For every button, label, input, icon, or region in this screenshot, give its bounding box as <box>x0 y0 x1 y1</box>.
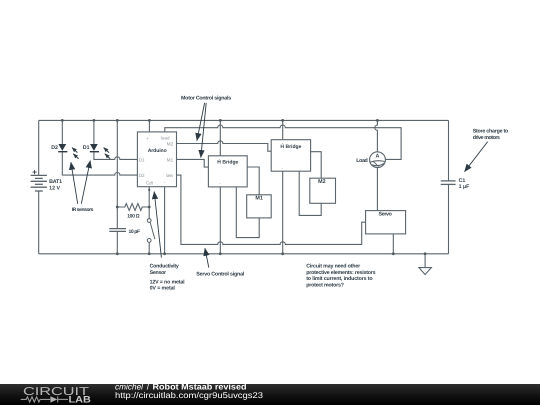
svg-text:M1: M1 <box>167 158 174 163</box>
wire H bridge 2 to M2 top <box>311 152 322 179</box>
wire load meter to servo <box>376 168 378 211</box>
svg-text:H́ Bridge: H́ Bridge <box>217 159 238 166</box>
svg-text:Cdt: Cdt <box>146 180 154 185</box>
svg-text:10 pF: 10 pF <box>129 229 141 235</box>
label C1 value <box>459 178 470 190</box>
svg-text:load: load <box>161 135 170 140</box>
svg-text:Conductivity: Conductivity <box>150 264 179 270</box>
wire Arduino Cdt pin to switch <box>148 187 150 219</box>
wire H bridge 1 top pin <box>219 120 221 155</box>
svg-text:M2: M2 <box>318 179 326 185</box>
pin labels Arduino <box>139 135 174 185</box>
photodiode D2 <box>58 144 78 159</box>
svg-text:A: A <box>376 154 380 160</box>
wire H bridge 2 top pin <box>282 120 284 139</box>
wire D1 cathode to Arduino D1 pin <box>94 152 137 159</box>
svg-text:H́ Bridge: H́ Bridge <box>280 143 301 150</box>
ammeter Load <box>370 152 386 168</box>
annotation Motor Control signals <box>181 95 231 157</box>
wire servo bottom pin <box>392 234 394 254</box>
wire RC column top <box>116 120 118 228</box>
wire bottom ground rail <box>39 253 449 255</box>
svg-text:D1: D1 <box>139 158 145 163</box>
junction dots <box>61 119 427 255</box>
svg-text:Servo Control signal: Servo Control signal <box>196 272 245 278</box>
svg-text:Arduino: Arduino <box>148 148 167 154</box>
label BAT1 value <box>49 179 62 191</box>
svg-text:M1: M1 <box>255 195 263 201</box>
wire H bridge 1 minus pin to rail <box>219 187 221 254</box>
block H Bridge 1 <box>208 156 247 187</box>
annotation Servo Control signal <box>196 248 245 277</box>
svg-text:D1: D1 <box>83 145 90 151</box>
svg-text:C1: C1 <box>459 178 466 184</box>
wire ground stub <box>424 254 426 268</box>
svg-text:1 µF: 1 µF <box>459 184 470 190</box>
svg-text:Motor Control signals: Motor Control signals <box>181 95 231 101</box>
svg-text:M2: M2 <box>167 142 174 147</box>
footer bar <box>0 384 540 405</box>
wire load column hop <box>375 120 378 151</box>
annotation Store charge <box>465 128 510 171</box>
wire H bridge 2 to M2 bottom <box>299 171 321 215</box>
wire right rail to C1 top <box>448 120 450 180</box>
motor M1 <box>247 195 272 218</box>
op block Arduino U1 <box>137 132 176 187</box>
logo diode <box>50 396 57 402</box>
wire D2 cathode to Arduino D2 pin <box>62 152 137 175</box>
capacitor C1 <box>441 181 456 185</box>
wire Arduino plus pin <box>148 120 150 131</box>
svg-text:serv: serv <box>166 173 174 178</box>
svg-text:12 V: 12 V <box>49 185 60 191</box>
photodiode D1 <box>90 144 110 159</box>
switch conductivity probe <box>147 219 155 243</box>
svg-text:Store charge to: Store charge to <box>473 128 509 134</box>
block H Bridge 2 <box>271 140 310 172</box>
svg-text:0V = metal: 0V = metal <box>150 285 176 291</box>
wire Arduino serv net <box>177 175 366 244</box>
svg-text:100 Ω: 100 Ω <box>127 213 139 219</box>
logo schematic glyph <box>21 396 68 402</box>
block Servo <box>366 211 406 234</box>
wire Arduino M1 net <box>177 159 209 167</box>
capacitor 10 pF <box>109 229 126 232</box>
wire H bridge 2 minus pin to rail <box>282 171 284 254</box>
svg-text:drive motors: drive motors <box>473 135 500 141</box>
wire Arduino load pin net <box>165 125 401 159</box>
svg-text:Circuit may need other: Circuit may need other <box>306 263 360 269</box>
svg-text:BAT1: BAT1 <box>49 179 62 185</box>
svg-text:D2: D2 <box>51 145 58 151</box>
wire C1 bottom to rail <box>448 184 450 253</box>
battery BAT1 <box>31 170 47 191</box>
svg-text:+: + <box>146 136 149 141</box>
svg-text:to limit current, inductors to: to limit current, inductors to <box>306 276 373 282</box>
resistor 100 ohm <box>117 204 149 211</box>
wire left rail battery bottom <box>38 191 40 254</box>
wire H bridge 1 to M1 top <box>247 167 259 195</box>
svg-text:Sensor: Sensor <box>150 270 167 276</box>
wire H bridge 1 to M1 bottom <box>236 187 259 238</box>
annotation Circuit may need note <box>306 263 375 288</box>
wire Arduino M2 net <box>177 141 272 151</box>
annotation IR sensors <box>71 161 94 213</box>
svg-text:D2: D2 <box>139 173 145 178</box>
ground <box>419 268 431 275</box>
motor M2 <box>310 178 336 203</box>
wire top +12V rail <box>39 119 449 121</box>
wire Arduino minus pin to rail <box>164 187 166 254</box>
wire RC column bottom <box>116 231 118 253</box>
svg-text:Load: Load <box>356 158 368 164</box>
svg-text:protective elements: resistors: protective elements: resistors <box>306 270 375 276</box>
svg-text:protect motors?: protect motors? <box>306 282 344 288</box>
wire D1 anode column <box>93 120 95 144</box>
svg-text:Servo: Servo <box>379 212 393 218</box>
annotation Conductivity Sensor <box>150 192 186 292</box>
svg-text:IR sensors: IR sensors <box>72 207 94 213</box>
wire switch to rail <box>148 242 150 254</box>
wire D2 anode column <box>61 120 63 144</box>
wire left rail battery top <box>38 120 40 175</box>
